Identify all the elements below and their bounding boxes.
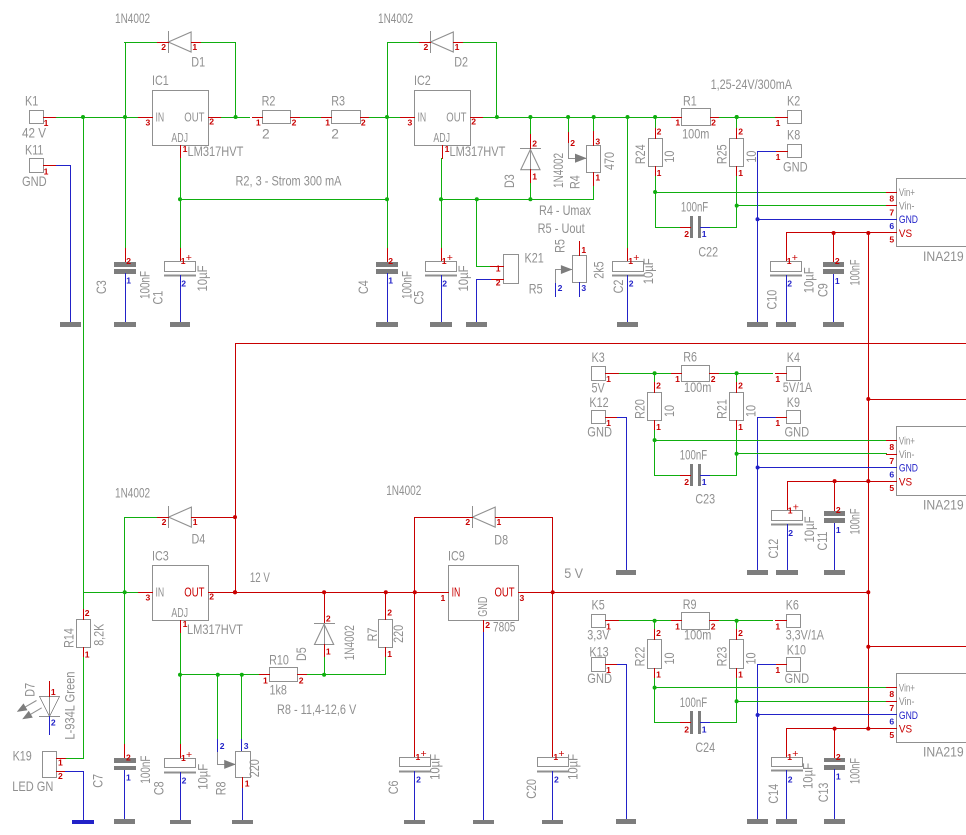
svg-text:D7: D7 <box>23 683 38 697</box>
svg-text:C8: C8 <box>151 781 166 795</box>
svg-text:100nF: 100nF <box>847 758 862 784</box>
svg-text:6: 6 <box>889 469 894 479</box>
svg-text:GND: GND <box>475 597 490 617</box>
svg-text:GND: GND <box>899 463 918 475</box>
svg-text:C11: C11 <box>815 532 830 551</box>
svg-text:2: 2 <box>299 675 304 685</box>
svg-text:3: 3 <box>146 593 151 603</box>
svg-text:1N4002: 1N4002 <box>342 625 357 660</box>
svg-text:VS: VS <box>899 228 913 240</box>
svg-text:2: 2 <box>326 613 331 623</box>
svg-text:GND: GND <box>587 671 612 686</box>
svg-text:+: + <box>792 748 798 760</box>
svg-text:2: 2 <box>711 621 716 631</box>
svg-text:C13: C13 <box>816 782 831 802</box>
svg-text:2: 2 <box>532 139 537 149</box>
svg-text:1: 1 <box>702 229 707 239</box>
svg-text:1: 1 <box>126 772 131 782</box>
svg-text:OUT: OUT <box>184 584 204 599</box>
svg-text:100nF: 100nF <box>680 695 707 710</box>
svg-text:1: 1 <box>702 477 707 487</box>
svg-text:1: 1 <box>656 670 661 680</box>
svg-text:1: 1 <box>836 771 841 781</box>
svg-text:+: + <box>792 252 798 264</box>
svg-text:2: 2 <box>331 126 339 141</box>
svg-text:Vin-: Vin- <box>899 696 915 708</box>
svg-text:10µF: 10µF <box>456 266 471 292</box>
svg-text:2: 2 <box>416 775 421 785</box>
svg-text:K21: K21 <box>525 250 544 265</box>
svg-text:IN: IN <box>452 585 461 600</box>
svg-text:10: 10 <box>662 150 677 162</box>
svg-text:3: 3 <box>520 593 525 603</box>
svg-text:1: 1 <box>657 168 662 178</box>
svg-text:2: 2 <box>387 608 392 618</box>
svg-text:8: 8 <box>889 442 894 452</box>
svg-text:100nF: 100nF <box>680 448 707 463</box>
svg-text:INA219: INA219 <box>923 249 964 264</box>
svg-text:D8: D8 <box>494 532 508 547</box>
svg-text:5: 5 <box>889 483 894 493</box>
svg-text:IC2: IC2 <box>414 73 431 88</box>
svg-text:K6: K6 <box>786 597 799 612</box>
svg-text:1: 1 <box>675 118 680 128</box>
svg-text:GND: GND <box>785 424 810 439</box>
svg-text:2: 2 <box>209 592 214 602</box>
svg-text:OUT: OUT <box>184 109 204 124</box>
svg-text:1: 1 <box>245 779 250 789</box>
svg-text:IN: IN <box>418 109 427 124</box>
svg-text:10µF: 10µF <box>641 258 656 284</box>
svg-text:C12: C12 <box>766 539 781 559</box>
svg-text:R10: R10 <box>269 653 289 668</box>
svg-text:2: 2 <box>835 256 840 266</box>
svg-text:K8: K8 <box>787 128 800 143</box>
svg-text:5 V: 5 V <box>564 566 584 581</box>
svg-text:10: 10 <box>744 150 759 162</box>
svg-text:1: 1 <box>387 649 392 659</box>
svg-text:10: 10 <box>662 652 677 664</box>
svg-text:VS: VS <box>899 476 913 488</box>
svg-text:3: 3 <box>146 118 151 128</box>
svg-text:3: 3 <box>595 136 600 146</box>
svg-text:GND: GND <box>899 710 918 722</box>
svg-text:+: + <box>186 749 192 761</box>
svg-text:C24: C24 <box>695 740 715 755</box>
svg-text:R14: R14 <box>62 628 77 648</box>
svg-text:1: 1 <box>836 525 841 535</box>
svg-text:1: 1 <box>126 276 131 286</box>
svg-text:10: 10 <box>744 652 759 664</box>
svg-text:1: 1 <box>656 422 661 432</box>
svg-text:2: 2 <box>181 279 186 289</box>
svg-text:10µF: 10µF <box>195 764 210 790</box>
svg-text:Vin-: Vin- <box>899 449 915 461</box>
svg-text:R5: R5 <box>553 239 568 253</box>
svg-text:6: 6 <box>889 717 894 727</box>
svg-text:2: 2 <box>570 138 575 148</box>
svg-text:GND: GND <box>587 424 612 439</box>
svg-text:R22: R22 <box>633 647 648 667</box>
svg-text:2: 2 <box>126 256 131 266</box>
svg-text:1: 1 <box>532 171 537 181</box>
svg-text:2: 2 <box>711 118 716 128</box>
svg-text:1: 1 <box>738 422 743 432</box>
svg-text:K3: K3 <box>592 350 605 365</box>
svg-text:2: 2 <box>788 774 793 784</box>
svg-text:2: 2 <box>738 127 743 137</box>
svg-text:ADJ: ADJ <box>171 130 188 145</box>
svg-text:2: 2 <box>424 42 429 52</box>
svg-text:1N4002: 1N4002 <box>115 11 150 26</box>
svg-text:K1: K1 <box>25 94 38 109</box>
svg-text:2: 2 <box>738 628 743 638</box>
svg-text:8,2K: 8,2K <box>92 623 107 646</box>
svg-text:2: 2 <box>711 374 716 384</box>
svg-text:2: 2 <box>787 279 792 289</box>
svg-text:R1: R1 <box>683 94 697 109</box>
svg-text:C23: C23 <box>695 492 715 507</box>
svg-text:10µF: 10µF <box>801 763 816 789</box>
svg-text:2: 2 <box>485 620 490 630</box>
svg-text:D5: D5 <box>294 647 309 661</box>
svg-text:8: 8 <box>889 194 894 204</box>
svg-text:100nF: 100nF <box>681 200 708 215</box>
svg-text:5: 5 <box>889 730 894 740</box>
svg-text:2: 2 <box>262 126 270 141</box>
svg-text:D4: D4 <box>192 532 206 547</box>
svg-text:+: + <box>186 252 192 264</box>
svg-text:2: 2 <box>162 517 167 527</box>
svg-text:1: 1 <box>738 670 743 680</box>
svg-text:100nF: 100nF <box>847 509 862 535</box>
svg-text:1: 1 <box>441 593 446 603</box>
svg-text:LED GN: LED GN <box>12 779 53 794</box>
svg-text:L-934L Green: L-934L Green <box>62 672 77 740</box>
svg-text:10µF: 10µF <box>801 267 816 293</box>
svg-text:1: 1 <box>581 245 586 255</box>
svg-text:K2: K2 <box>787 94 800 109</box>
svg-text:1: 1 <box>775 418 780 428</box>
svg-text:GND: GND <box>785 671 810 686</box>
svg-text:2: 2 <box>684 724 689 734</box>
svg-text:2: 2 <box>292 118 297 128</box>
svg-text:1: 1 <box>325 118 330 128</box>
svg-text:1: 1 <box>776 152 781 162</box>
svg-text:K12: K12 <box>589 395 608 410</box>
svg-text:GND: GND <box>783 160 808 175</box>
svg-text:2: 2 <box>629 279 634 289</box>
svg-text:1: 1 <box>192 42 197 52</box>
svg-text:R24: R24 <box>633 144 648 164</box>
svg-text:IC1: IC1 <box>152 73 169 88</box>
svg-text:220: 220 <box>247 759 262 777</box>
svg-text:2: 2 <box>684 229 689 239</box>
svg-text:2: 2 <box>161 42 166 52</box>
svg-text:Vin+: Vin+ <box>899 683 915 695</box>
svg-text:5: 5 <box>889 235 894 245</box>
svg-text:220: 220 <box>391 625 406 643</box>
svg-text:C4: C4 <box>356 280 371 294</box>
svg-text:+: + <box>793 501 799 513</box>
svg-text:+: + <box>447 252 453 264</box>
svg-text:5V/1A: 5V/1A <box>783 380 813 395</box>
svg-text:D1: D1 <box>191 55 205 70</box>
svg-text:INA219: INA219 <box>923 498 964 513</box>
svg-text:12 V: 12 V <box>250 570 271 585</box>
svg-text:2: 2 <box>684 477 689 487</box>
svg-text:7805: 7805 <box>493 619 516 634</box>
svg-text:1: 1 <box>85 649 90 659</box>
svg-text:2: 2 <box>738 381 743 391</box>
svg-text:INA219: INA219 <box>923 745 964 760</box>
svg-text:K5: K5 <box>592 597 605 612</box>
svg-text:1: 1 <box>496 264 501 274</box>
svg-text:IN: IN <box>156 584 165 599</box>
svg-text:1: 1 <box>835 276 840 286</box>
svg-text:1: 1 <box>775 665 780 675</box>
svg-text:R21: R21 <box>715 399 730 419</box>
svg-text:8: 8 <box>889 689 894 699</box>
svg-text:7: 7 <box>889 703 894 713</box>
svg-text:2: 2 <box>558 283 563 293</box>
svg-text:1k8: 1k8 <box>270 682 288 697</box>
svg-text:C7: C7 <box>91 774 106 788</box>
svg-text:Vin-: Vin- <box>899 201 915 213</box>
svg-text:R25: R25 <box>715 144 730 164</box>
svg-text:2: 2 <box>496 277 501 287</box>
svg-text:C5: C5 <box>412 290 427 304</box>
svg-text:D3: D3 <box>502 174 517 188</box>
svg-text:1N4002: 1N4002 <box>551 153 566 188</box>
svg-text:C20: C20 <box>524 779 539 799</box>
svg-text:470: 470 <box>602 152 617 170</box>
svg-text:R7: R7 <box>365 628 380 642</box>
svg-text:3: 3 <box>408 118 413 128</box>
svg-text:42 V: 42 V <box>22 126 47 141</box>
svg-text:R8 - 11,4-12,6 V: R8 - 11,4-12,6 V <box>277 702 357 717</box>
svg-text:2: 2 <box>220 741 225 751</box>
svg-text:K19: K19 <box>13 749 32 764</box>
svg-text:C9: C9 <box>815 283 830 297</box>
svg-text:R5 - Uout: R5 - Uout <box>538 221 585 236</box>
svg-text:1N4002: 1N4002 <box>378 11 413 26</box>
svg-text:Vin+: Vin+ <box>899 435 915 447</box>
svg-text:2: 2 <box>656 628 661 638</box>
svg-text:1: 1 <box>775 622 780 632</box>
svg-text:1: 1 <box>595 173 600 183</box>
svg-text:R3: R3 <box>331 94 345 109</box>
svg-text:IC9: IC9 <box>448 548 465 563</box>
svg-text:2: 2 <box>361 118 366 128</box>
svg-text:C2: C2 <box>611 280 626 294</box>
svg-text:2k5: 2k5 <box>591 261 606 279</box>
svg-text:100m: 100m <box>682 127 709 142</box>
svg-text:100m: 100m <box>684 628 711 643</box>
svg-text:1: 1 <box>51 687 56 697</box>
svg-text:10: 10 <box>662 405 677 417</box>
svg-text:6: 6 <box>889 221 894 231</box>
svg-text:R20: R20 <box>633 399 648 419</box>
svg-text:5V: 5V <box>592 381 606 396</box>
svg-text:R9: R9 <box>683 597 697 612</box>
svg-text:LM317HVT: LM317HVT <box>188 144 244 159</box>
svg-text:K10: K10 <box>787 642 806 657</box>
svg-text:1: 1 <box>606 374 611 384</box>
svg-text:2: 2 <box>85 608 90 618</box>
svg-text:2: 2 <box>182 776 187 786</box>
svg-text:K9: K9 <box>787 395 800 410</box>
svg-text:2: 2 <box>788 528 793 538</box>
svg-text:C1: C1 <box>151 291 166 305</box>
svg-text:10µF: 10µF <box>427 754 442 780</box>
svg-text:2: 2 <box>657 127 662 137</box>
svg-text:LM317HVT: LM317HVT <box>187 622 243 637</box>
svg-text:IN: IN <box>156 109 165 124</box>
svg-text:R5: R5 <box>529 281 543 296</box>
svg-text:R8: R8 <box>213 781 228 795</box>
svg-text:1: 1 <box>388 276 393 286</box>
svg-text:R2, 3 - Strom 300 mA: R2, 3 - Strom 300 mA <box>236 174 343 189</box>
svg-text:2: 2 <box>442 279 447 289</box>
svg-text:2: 2 <box>465 517 470 527</box>
svg-text:3: 3 <box>244 741 249 751</box>
svg-text:1: 1 <box>193 517 198 527</box>
svg-text:C10: C10 <box>765 290 780 310</box>
svg-text:3,3V: 3,3V <box>587 628 610 643</box>
svg-text:2: 2 <box>209 117 214 127</box>
svg-text:C22: C22 <box>698 245 718 260</box>
svg-text:K11: K11 <box>25 143 43 158</box>
svg-text:R4: R4 <box>568 175 583 189</box>
svg-text:+: + <box>421 748 427 760</box>
svg-text:2: 2 <box>471 117 476 127</box>
svg-text:1N4002: 1N4002 <box>115 486 150 501</box>
svg-text:2: 2 <box>656 381 661 391</box>
svg-text:1: 1 <box>58 758 63 768</box>
svg-text:ADJ: ADJ <box>171 605 188 620</box>
svg-text:10: 10 <box>744 405 759 417</box>
svg-text:1: 1 <box>702 724 707 734</box>
svg-text:D2: D2 <box>454 55 468 70</box>
svg-text:1: 1 <box>775 374 780 384</box>
svg-text:7: 7 <box>889 207 894 217</box>
svg-text:GND: GND <box>899 214 918 226</box>
svg-text:R23: R23 <box>715 646 730 666</box>
svg-text:1: 1 <box>256 118 261 128</box>
svg-text:1: 1 <box>776 118 781 128</box>
svg-text:ADJ: ADJ <box>433 130 450 145</box>
svg-text:OUT: OUT <box>446 109 466 124</box>
svg-text:R4 - Umax: R4 - Umax <box>539 203 591 218</box>
svg-text:100nF: 100nF <box>847 260 862 286</box>
svg-text:C3: C3 <box>94 280 109 294</box>
svg-text:1: 1 <box>326 646 331 656</box>
svg-text:IC3: IC3 <box>152 549 169 564</box>
svg-text:1,25-24V/300mA: 1,25-24V/300mA <box>711 77 793 92</box>
svg-text:3: 3 <box>581 283 586 293</box>
svg-text:1: 1 <box>675 621 680 631</box>
svg-text:2: 2 <box>126 753 131 763</box>
svg-text:+: + <box>558 748 564 760</box>
svg-text:K13: K13 <box>589 644 608 659</box>
svg-text:LM317HVT: LM317HVT <box>450 144 506 159</box>
svg-text:R6: R6 <box>683 350 697 365</box>
svg-text:1N4002: 1N4002 <box>386 483 421 498</box>
svg-text:VS: VS <box>899 723 913 735</box>
svg-text:1: 1 <box>738 168 743 178</box>
svg-text:R2: R2 <box>262 94 276 109</box>
svg-text:K4: K4 <box>787 350 800 365</box>
svg-text:7: 7 <box>889 456 894 466</box>
svg-text:1: 1 <box>675 374 680 384</box>
svg-text:100nF: 100nF <box>138 756 153 784</box>
svg-text:2: 2 <box>58 771 63 781</box>
svg-text:1: 1 <box>455 42 460 52</box>
svg-text:1: 1 <box>263 675 268 685</box>
svg-text:GND: GND <box>22 174 47 189</box>
svg-text:2: 2 <box>836 752 841 762</box>
svg-text:2: 2 <box>554 775 559 785</box>
svg-text:C6: C6 <box>386 780 401 794</box>
svg-text:2: 2 <box>836 505 841 515</box>
svg-text:C14: C14 <box>766 784 781 804</box>
svg-text:10µF: 10µF <box>195 266 210 292</box>
svg-text:+: + <box>633 252 639 264</box>
svg-text:Vin+: Vin+ <box>899 187 915 199</box>
svg-text:3,3V/1A: 3,3V/1A <box>786 628 825 643</box>
svg-text:OUT: OUT <box>495 585 515 600</box>
svg-text:1: 1 <box>497 517 502 527</box>
svg-text:2: 2 <box>51 718 56 728</box>
svg-text:2: 2 <box>388 256 393 266</box>
svg-text:10µF: 10µF <box>566 754 581 780</box>
svg-text:100m: 100m <box>684 380 711 395</box>
